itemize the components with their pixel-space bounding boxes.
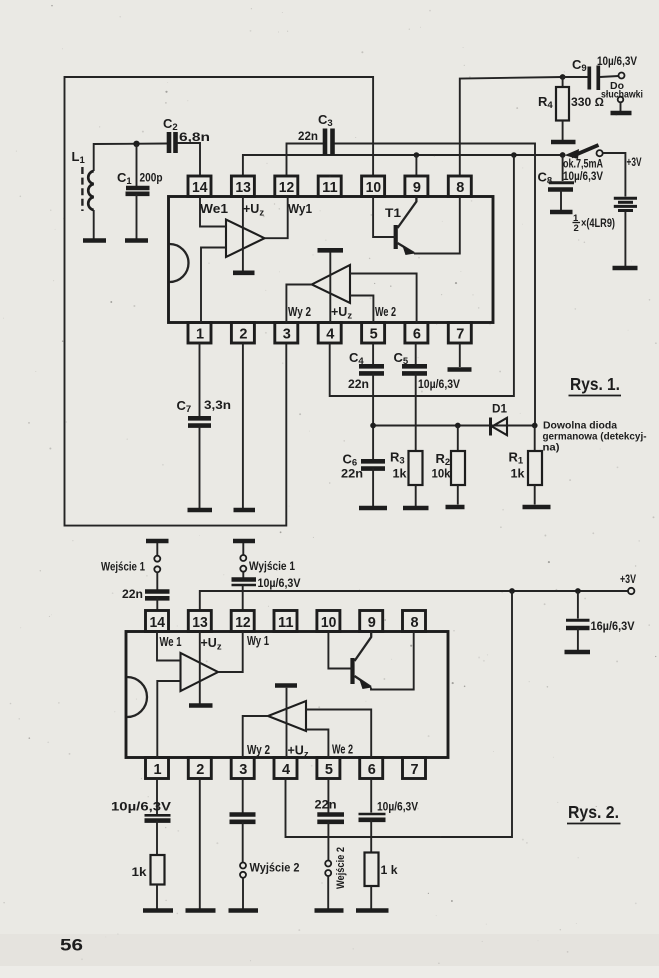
output terminal circle bottom [240, 566, 246, 572]
pin 8 [448, 176, 471, 197]
ground symbol A1 [233, 270, 255, 275]
resistor R2 [451, 451, 465, 485]
svg-text:We 1: We 1 [160, 635, 182, 649]
junction switch node [560, 152, 566, 158]
T1 emitter arrowhead [402, 245, 415, 256]
junction rail/pin9 [414, 152, 420, 158]
wire A2 lower input to pin5 rys2 [306, 730, 328, 758]
wire 1k to ground rys2 pin1 [156, 885, 158, 909]
svg-text:5: 5 [325, 762, 333, 778]
junction C4/C6/detector [370, 423, 376, 429]
wire C3 to D1 junction (down right side) [335, 144, 536, 426]
wire pin7 to ground [459, 343, 461, 367]
capacitor C1 [126, 186, 150, 191]
svg-text:D1: D1 [492, 402, 507, 416]
T1 collector to pin9 [398, 197, 417, 229]
wire emitter to pin8 rys2 [371, 632, 414, 690]
wire pin3 to cap rys2 [242, 779, 244, 813]
svg-text:11: 11 [278, 615, 294, 631]
Wyjscie 2 terminal circle top [240, 863, 246, 869]
wire emitter to pin8 [414, 197, 460, 254]
svg-text:Wy 1: Wy 1 [247, 634, 269, 648]
ground under battery [613, 266, 638, 271]
ground under pin1 [188, 508, 213, 513]
svg-text:10: 10 [366, 180, 382, 196]
wire A1 lower input to pin1 rys2 [157, 681, 180, 758]
svg-text:10µ/6,3V: 10µ/6,3V [258, 576, 301, 590]
wire pin2 to ground rys2 [199, 779, 201, 909]
IC notch rys2 [127, 677, 147, 717]
op-amp A2 triangle rys2 [268, 701, 306, 731]
wire cap to 1k rys2 pin6 [370, 820, 372, 853]
svg-text:1k: 1k [511, 467, 525, 481]
resistor 1k pin1 rys2 [151, 855, 165, 885]
capacitor 10u output coupling [232, 577, 257, 582]
capacitor 22n pin5 rys2 [317, 812, 344, 817]
wire pin9 riser [415, 155, 417, 176]
output terminal circle top [240, 555, 246, 561]
capacitor C5 [402, 364, 427, 369]
T emitter rys2 [355, 676, 372, 687]
wire detector to R2 [457, 426, 459, 452]
wire pin13 riser and +Uz supply rail to switch node [243, 155, 563, 176]
svg-text:1: 1 [154, 762, 162, 778]
svg-text:Dowolna dioda: Dowolna dioda [543, 421, 617, 432]
ground under C8 [550, 210, 573, 215]
wire battery to ground [624, 212, 626, 267]
svg-text:13: 13 [192, 615, 208, 631]
ground under pin2 rys2 [186, 908, 216, 913]
Wyjscie 1 top bar (ground) [233, 539, 255, 544]
pin 3 rys2 [231, 758, 254, 779]
ground under C1 [125, 238, 148, 243]
Wejscie 2 terminal circle bottom [325, 870, 331, 876]
svg-text:+3V: +3V [627, 157, 642, 169]
wire 16u to ground [577, 628, 579, 650]
wire A2 input We2 to pin6 [350, 274, 417, 323]
pin 5 [362, 323, 385, 344]
pin 1 rys2 [146, 758, 169, 779]
pin 8 rys2 [403, 611, 426, 632]
svg-text:1k: 1k [132, 865, 147, 879]
wire node to C1 [136, 144, 138, 187]
svg-text:Rys. 2.: Rys. 2. [568, 802, 619, 822]
svg-text:10µ/6,3V: 10µ/6,3V [377, 800, 418, 814]
T collector to pin9 rys2 [355, 632, 372, 662]
A2 top ground bar [318, 248, 344, 253]
svg-text:22n: 22n [348, 377, 369, 391]
svg-text:2: 2 [196, 762, 204, 778]
wire pin14 to A1 input rys2 [157, 632, 181, 661]
svg-text:6,8n: 6,8n [179, 130, 210, 144]
pin 14 rys2 [146, 611, 169, 632]
wire T1 base to pin10 riser [373, 197, 396, 238]
svg-text:7: 7 [411, 762, 419, 778]
wire A2 output to pin3 rys2 [243, 716, 268, 758]
pin 5 rys2 [317, 758, 340, 779]
transistor T base bar rys2 [350, 658, 354, 684]
ground under pin2 [234, 508, 256, 513]
wire terminal to ground rys2 pin5 [327, 876, 329, 909]
pin 7 rys2 [403, 758, 426, 779]
svg-text:3: 3 [239, 762, 247, 778]
svg-text:9: 9 [368, 615, 376, 631]
pin 13 [231, 176, 254, 197]
svg-text:Wejście 2: Wejście 2 [335, 847, 347, 889]
input terminal circle top [154, 556, 160, 562]
ground under R4 [551, 140, 576, 145]
T emitter arrowhead rys2 [359, 679, 372, 690]
node R4/C9/pin8 [560, 74, 566, 80]
pin 4 rys2 [274, 758, 297, 779]
wire A2 +Uz stem to pin4 [329, 253, 331, 323]
wire terminal to 22n [156, 572, 158, 589]
capacitor output2 coupling rys2 [230, 812, 256, 817]
capacitor C7 [188, 416, 211, 421]
wire pin6 to 10u rys2 [370, 779, 372, 813]
pin 12 rys2 [231, 611, 254, 632]
wire pin4 to +Uz rail riser [330, 155, 514, 396]
capacitor 22n input [145, 589, 170, 594]
pin 9 rys2 [360, 611, 383, 632]
junction rail/+Uz amp2 riser [511, 152, 517, 158]
svg-text:7: 7 [456, 327, 464, 343]
pin 6 [405, 323, 428, 344]
op-amp A1 triangle rys2 [181, 653, 219, 691]
svg-text:1 k: 1 k [381, 863, 398, 877]
ground under R2 [446, 505, 465, 510]
IC U1 body rys2 [126, 632, 448, 758]
wire pin5 to C4 [372, 343, 374, 364]
wire C4 to C6 [372, 373, 374, 459]
pin 12 [275, 176, 298, 197]
wire L1 bottom to ground [93, 210, 95, 239]
svg-text:22n: 22n [298, 129, 318, 143]
wire A1 output to pin12 [265, 197, 288, 239]
ground under pin5 rys2 [315, 908, 344, 913]
wire C9 to headphone terminal [600, 76, 619, 77]
wire pin14 to A1 input [200, 197, 226, 227]
wire pin5 to 22n rys2 [327, 779, 329, 813]
svg-text:na): na) [543, 443, 560, 454]
wire A2 +Uz stem to pin4 rys2 [286, 688, 288, 758]
svg-text:We 2: We 2 [332, 743, 353, 757]
svg-text:Wejście 1: Wejście 1 [101, 560, 145, 574]
svg-text:×(4LR9): ×(4LR9) [581, 216, 615, 230]
wire A2 lower input to pin5 [350, 296, 373, 323]
pin 11 [318, 176, 341, 197]
svg-text:3,3n: 3,3n [204, 398, 231, 412]
wire terminal to ground rys2 pin3 [242, 878, 244, 909]
capacitor C4 [359, 364, 384, 369]
pin 11 rys2 [274, 611, 297, 632]
svg-text:1: 1 [196, 327, 204, 343]
inductor L1 [88, 171, 93, 210]
svg-text:10: 10 [321, 615, 337, 631]
pin 10 [362, 176, 385, 197]
wire detector line C6 to D1 to R1 [373, 425, 535, 427]
svg-text:3: 3 [283, 327, 291, 343]
svg-text:Wyjście 2: Wyjście 2 [250, 861, 300, 875]
battery B1 [614, 197, 637, 200]
svg-text:10µ/6,3V: 10µ/6,3V [597, 54, 637, 68]
svg-text:4: 4 [282, 762, 290, 778]
wire 22n to pin14 [156, 598, 158, 610]
A2 top ground bar rys2 [275, 683, 297, 688]
svg-text:5: 5 [370, 327, 378, 343]
svg-text:11: 11 [322, 180, 338, 196]
wire A1 output to pin12 rys2 [218, 632, 243, 673]
wire A2 output to pin3 [286, 285, 311, 323]
wire pin6 to C5 [415, 343, 417, 364]
wire A1 lower input to pin1 [201, 248, 226, 323]
pin 6 rys2 [360, 758, 383, 779]
wire +Uz pin13 to A1 ground rys2 [199, 632, 201, 705]
wire C2 to pin14 [178, 143, 201, 176]
pin 14 [188, 176, 211, 197]
wire pin1 to 10u cap rys2 [156, 779, 158, 815]
svg-text:8: 8 [456, 180, 464, 196]
capacitor C9 [563, 76, 588, 78]
pin 9 [405, 176, 428, 197]
svg-text:22n: 22n [341, 467, 363, 481]
capacitor C6 [361, 459, 385, 464]
resistor R3 [409, 451, 423, 485]
wire terminal to ground [620, 102, 622, 112]
pin 10 rys2 [317, 611, 340, 632]
svg-text:6: 6 [368, 762, 376, 778]
junction rail/+Uz riser [509, 588, 515, 594]
wire 1k to ground rys2 pin6 [370, 886, 372, 909]
Wyjscie 2 terminal circle bottom [240, 872, 246, 878]
ground under R1 [523, 505, 551, 510]
ground symbol A1 rys2 [189, 703, 213, 708]
wire C5 to R3 [415, 373, 417, 451]
wire pin2 to ground [242, 343, 244, 508]
diode D1 [489, 418, 492, 436]
Wejscie 1 top bar (ground) [146, 539, 169, 544]
svg-text:12: 12 [235, 615, 251, 631]
svg-text:22n: 22n [122, 587, 143, 601]
capacitor C8 [549, 181, 574, 184]
pin 13 rys2 [188, 611, 211, 632]
ground under pin1 rys2 [143, 908, 173, 913]
wire pin12 riser to C3 [287, 144, 324, 177]
svg-text:9: 9 [413, 180, 421, 196]
wire T base to pin10 riser rys2 [328, 632, 352, 669]
svg-text:We1: We1 [200, 201, 228, 216]
wire C7 to ground [199, 426, 201, 508]
pin 2 [231, 323, 254, 344]
wire A2 input We2 to pin6 rys2 [306, 710, 371, 758]
svg-text:Rys. 1.: Rys. 1. [570, 374, 620, 394]
wire cap to Wyjscie2 terminal [242, 822, 244, 863]
svg-text:12: 12 [279, 180, 295, 196]
wire C8 to ground [560, 190, 562, 211]
svg-text:4: 4 [326, 327, 334, 343]
wire: feedback loop Wy2(pin3) -> bottom -> left -> top -> T1 base riser (pin10) [65, 77, 374, 526]
svg-text:We 2: We 2 [375, 305, 396, 319]
ground under 16u [565, 650, 591, 655]
wire cap to 1k rys2 pin1 [156, 821, 158, 855]
ground under L1 [83, 238, 106, 243]
capacitor 10u pin1 rys2 [145, 814, 171, 817]
wire pin1 to C7 [199, 343, 201, 416]
svg-text:+3V: +3V [620, 574, 636, 586]
wire cap to pin12 [242, 585, 244, 611]
junction R2/detector [455, 423, 461, 429]
wire L1 top to C2 [94, 144, 167, 172]
capacitor C2 plates [167, 132, 172, 153]
svg-text:10k: 10k [432, 467, 451, 481]
svg-text:1k: 1k [393, 467, 407, 481]
wire C1 to ground [136, 194, 138, 239]
IC U1 body [169, 197, 494, 323]
ground under pin7 [448, 367, 472, 372]
svg-text:10µ/6,3V: 10µ/6,3V [418, 377, 460, 391]
svg-text:14: 14 [192, 180, 208, 196]
ground under pin6 rys2 [356, 908, 389, 913]
pin 2 rys2 [188, 758, 211, 779]
svg-text:330 Ω: 330 Ω [571, 95, 604, 109]
wire pin13 riser to +3V rail [200, 591, 628, 611]
transistor T1 base bar [394, 225, 398, 249]
ground under R3 [403, 506, 429, 511]
wire D1 node to R1 [534, 426, 536, 452]
capacitor 10u pin6 rys2 [359, 813, 386, 816]
switch lever [572, 145, 599, 157]
bottom scan shading [0, 934, 659, 966]
svg-text:Wy 2: Wy 2 [247, 743, 270, 757]
input terminal circle bottom [154, 566, 160, 572]
svg-text:Wyjście 1: Wyjście 1 [249, 559, 295, 573]
svg-text:2: 2 [239, 327, 247, 343]
headphone terminal top [619, 73, 625, 79]
T1 emitter [398, 243, 415, 253]
pin 1 [188, 323, 211, 344]
Wejscie 2 terminal circle top [325, 861, 331, 867]
wire pin8 riser to R4/C9 node [460, 77, 563, 176]
resistor R4 [562, 77, 564, 87]
svg-text:10µ/6,3V: 10µ/6,3V [563, 169, 603, 183]
wire R1 to ground [534, 485, 536, 505]
capacitor 16u/6,3V [566, 619, 590, 622]
IC notch [170, 244, 189, 282]
wire pin4 to +3V riser rys2 [286, 591, 513, 837]
pin 3 [275, 323, 298, 344]
svg-text:8: 8 [411, 615, 419, 631]
resistor 1k pin6 rys2 [365, 853, 379, 887]
switch arrowhead [565, 149, 580, 159]
wire C6 to ground [372, 469, 374, 506]
svg-text:Wy 2: Wy 2 [288, 305, 311, 319]
wire R2 to ground [457, 485, 459, 505]
svg-text:22n: 22n [315, 798, 337, 812]
svg-text:10µ/6,3V: 10µ/6,3V [111, 800, 171, 814]
wire +Uz pin13 to A1 ground [242, 197, 244, 272]
wire rail to 16u cap [577, 591, 579, 619]
ground under headphone terminal [611, 111, 632, 116]
op-amp A1 triangle [226, 220, 265, 258]
svg-text:56: 56 [60, 937, 83, 955]
+3V terminal circle [628, 588, 634, 594]
wire switch to battery [603, 153, 626, 197]
ground under C6 [359, 506, 387, 511]
node junction L1/C1/C2 [133, 141, 139, 147]
wire node to C8 [562, 155, 564, 181]
pin 7 [448, 323, 471, 344]
capacitor C3 plates [323, 129, 328, 156]
wire 22n to Wejscie2 terminal [327, 822, 329, 861]
svg-text:13: 13 [235, 180, 251, 196]
headphone terminal bottom [618, 97, 624, 103]
svg-text:Wy1: Wy1 [288, 201, 312, 216]
ground under pin3 rys2 [229, 908, 259, 913]
junction D1/R1/C3-wire [532, 423, 538, 429]
svg-text:T1: T1 [385, 206, 401, 220]
L1 ferrite core dashed line [81, 167, 83, 211]
junction rail/16u cap [575, 588, 581, 594]
wire R3 to ground [415, 485, 417, 506]
svg-text:16µ/6,3V: 16µ/6,3V [591, 619, 635, 633]
svg-text:germanowa (detekcyj-: germanowa (detekcyj- [543, 432, 647, 443]
op-amp A2 triangle [312, 265, 350, 303]
switch terminal circle [597, 150, 603, 156]
svg-text:200p: 200p [140, 171, 163, 185]
svg-text:14: 14 [150, 615, 166, 631]
svg-text:2: 2 [574, 223, 579, 234]
wire bar to output terminal [242, 543, 244, 555]
wire bar to input terminal [156, 543, 158, 556]
resistor R1 [528, 451, 542, 485]
wire terminal to cap [242, 572, 244, 578]
pin 4 [318, 323, 341, 344]
